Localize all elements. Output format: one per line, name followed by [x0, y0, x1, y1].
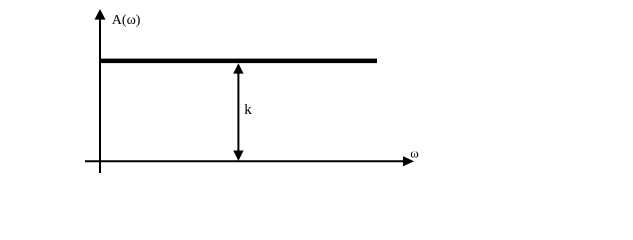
svg-text:ω: ω — [410, 145, 419, 160]
y-axis line — [99, 14, 101, 173]
dimension arrow top head — [233, 63, 243, 73]
level line A(w)=k — [99, 59, 377, 64]
dimension arrow bottom head — [233, 151, 243, 162]
x-axis line — [85, 160, 404, 162]
y-axis arrowhead — [95, 9, 106, 20]
x-axis arrowhead — [403, 156, 414, 166]
svg-text:A(ω): A(ω) — [112, 13, 141, 28]
svg-text:k: k — [244, 102, 252, 118]
dimension arrow shaft — [237, 71, 239, 152]
